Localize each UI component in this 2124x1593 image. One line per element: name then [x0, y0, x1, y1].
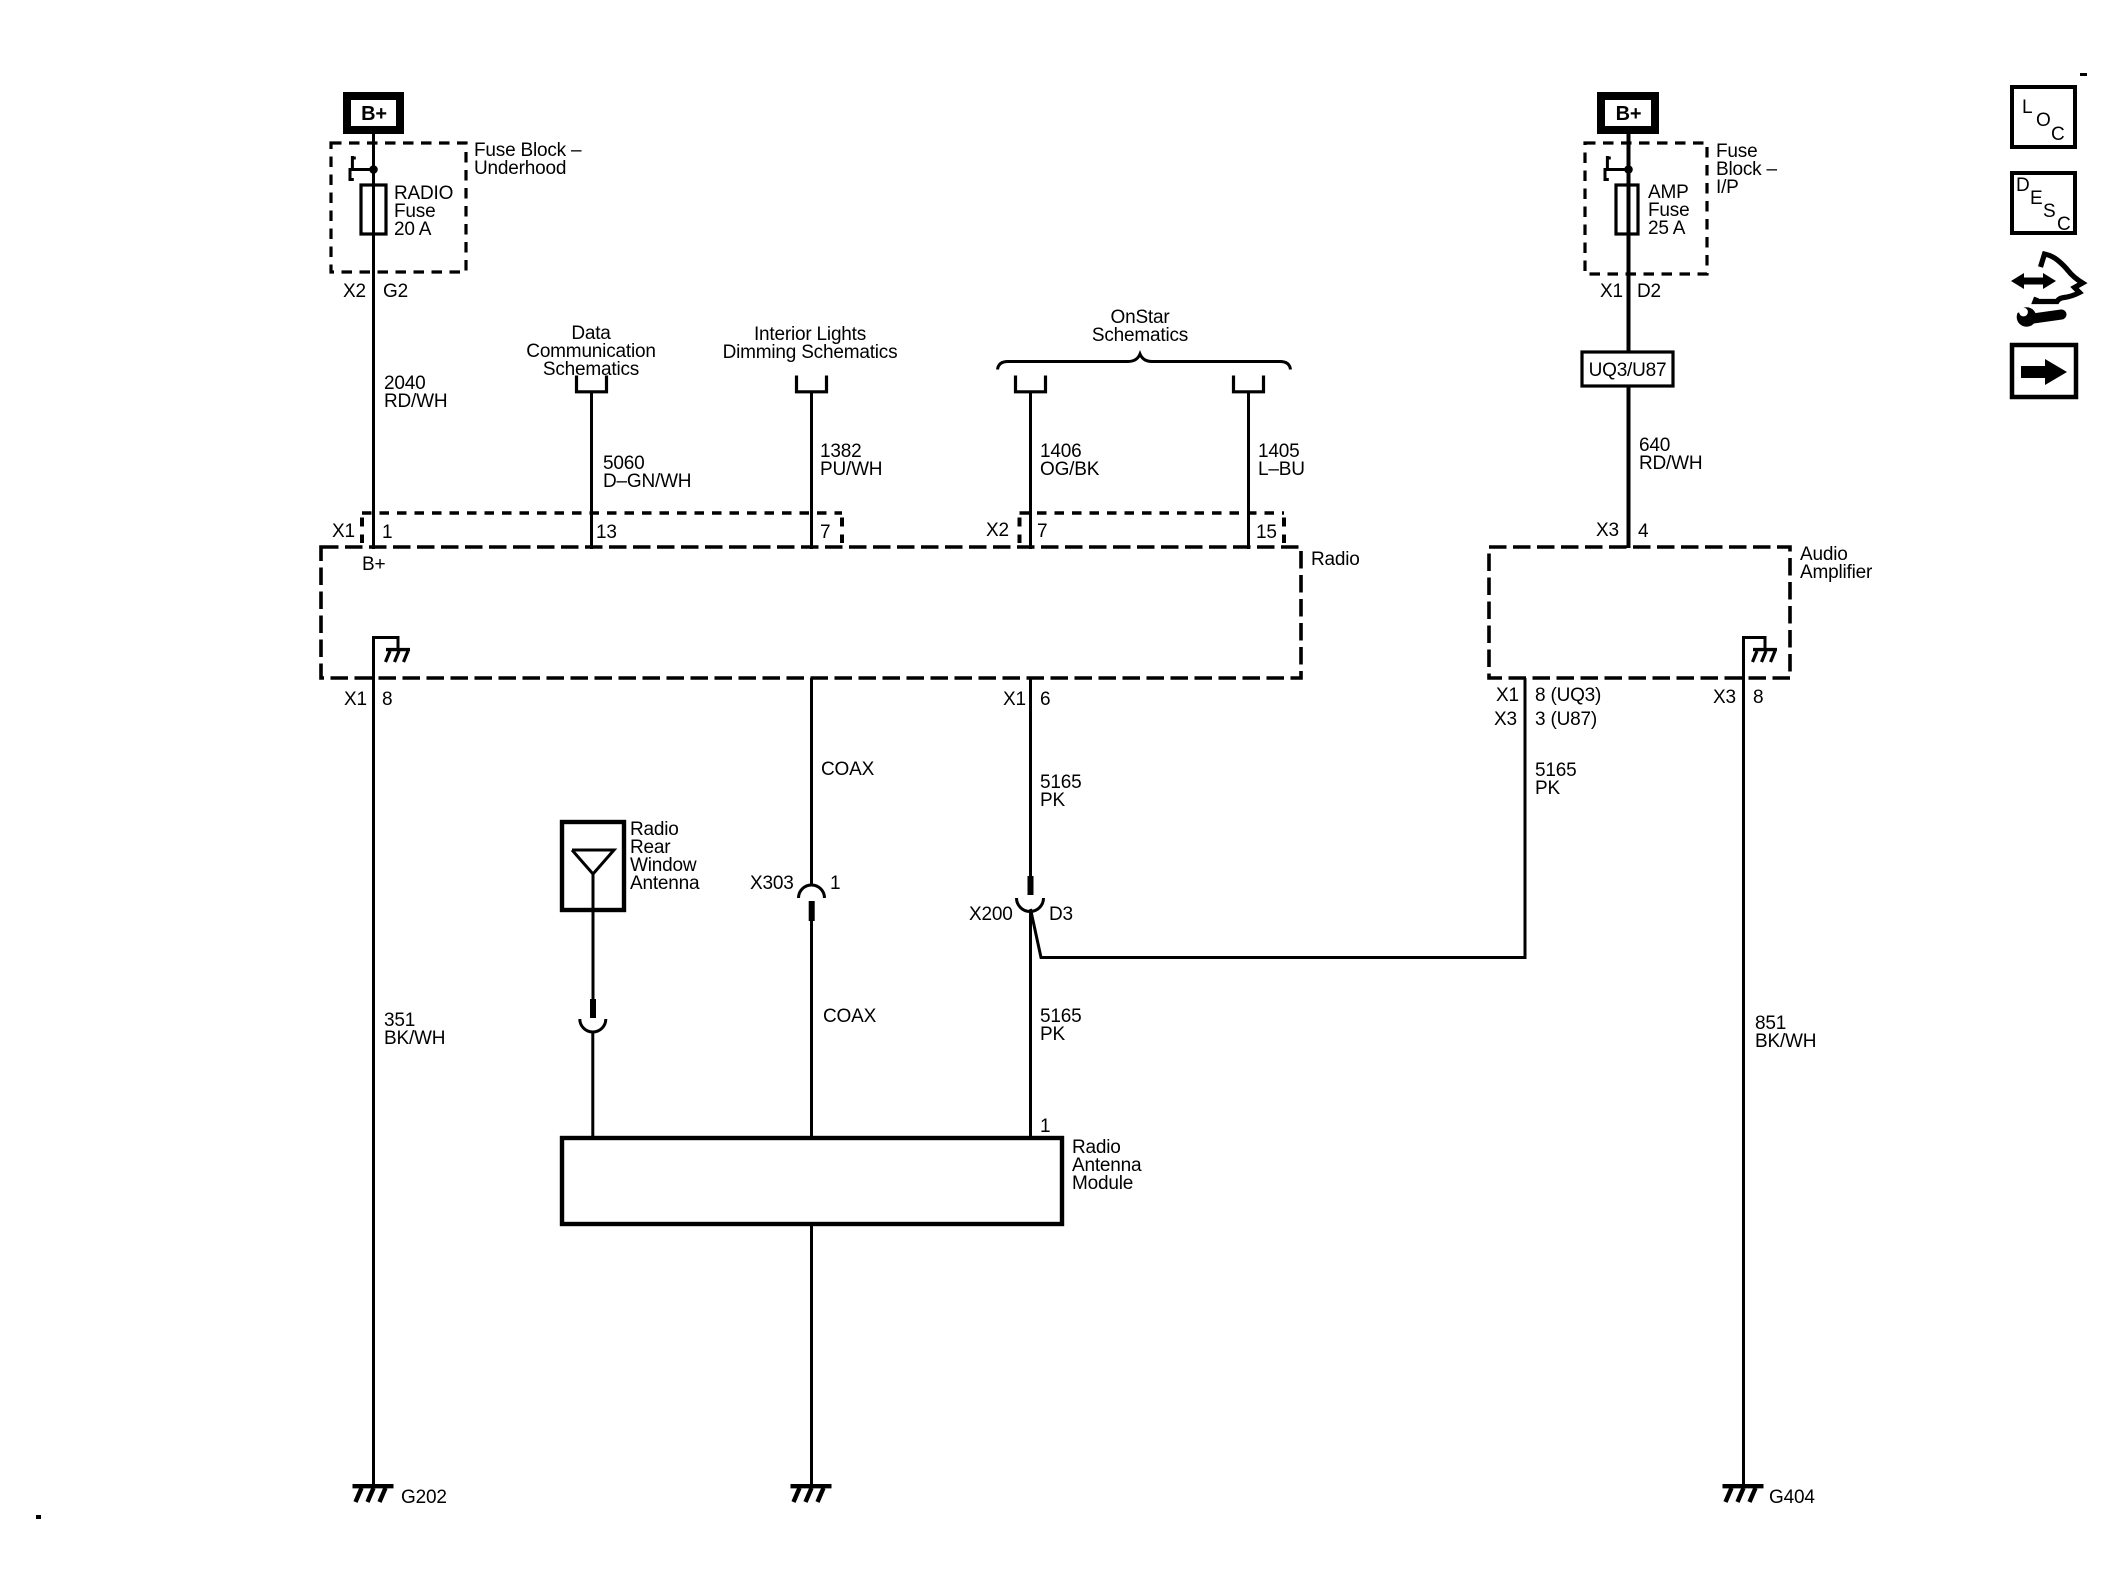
svg-text:7: 7	[1037, 521, 1047, 542]
pin labels X1 | 8 (radio bottom left)	[344, 689, 392, 710]
svg-text:8 (UQ3): 8 (UQ3)	[1535, 685, 1601, 706]
connector X303 1 (socket and pin)	[799, 885, 825, 921]
svg-text:15: 15	[1256, 522, 1277, 543]
svg-text:X2: X2	[343, 281, 366, 302]
pin labels X1 8 (UQ3) / X3 3 (U87)	[1494, 685, 1601, 730]
B+ power symbol (right, amp feed)	[1601, 96, 1655, 130]
radio internal chassis ground	[386, 650, 411, 662]
wire 351 BK/WH from radio X1-8 to G202	[372, 678, 375, 1484]
antenna symbol	[572, 850, 614, 999]
svg-text:L: L	[2022, 97, 2032, 118]
B+ power symbol (left, radio feed)	[347, 96, 400, 130]
antenna inline connector (pin and socket)	[580, 999, 606, 1032]
svg-text:X3: X3	[1494, 709, 1517, 730]
wire label 1406 OG/BK	[1040, 441, 1100, 480]
svg-text:RD/WH: RD/WH	[1639, 453, 1702, 474]
svg-text:25 A: 25 A	[1648, 218, 1686, 239]
stray mark top right	[2080, 73, 2087, 76]
svg-text:X1: X1	[1600, 281, 1623, 302]
wire below UQ3/U87 to amp pin X3-4	[1627, 386, 1631, 548]
svg-text:C: C	[2057, 214, 2071, 235]
svg-text:PU/WH: PU/WH	[820, 459, 882, 480]
svg-text:BK/WH: BK/WH	[1755, 1031, 1816, 1052]
svg-text:D–GN/WH: D–GN/WH	[603, 471, 691, 492]
wire 851 BK/WH from amp X3-8 to G404	[1742, 678, 1745, 1484]
svg-text:C: C	[2051, 124, 2065, 145]
label Fuse Block - I/P	[1716, 141, 1778, 198]
svg-text:X1: X1	[344, 689, 367, 710]
svg-text:1: 1	[830, 873, 840, 894]
svg-text:Module: Module	[1072, 1173, 1133, 1194]
wire label 1405 L-BU	[1258, 441, 1305, 480]
label Radio Rear Window Antenna	[630, 819, 700, 894]
COAX wire from radio to X303	[810, 678, 813, 886]
svg-text:X1: X1	[1003, 689, 1026, 710]
svg-text:BK/WH: BK/WH	[384, 1028, 445, 1049]
svg-text:X200: X200	[969, 904, 1013, 925]
svg-text:8: 8	[1753, 687, 1763, 708]
off-page connector (data communication)	[577, 376, 607, 392]
label Fuse Block - Underhood	[474, 140, 582, 179]
svg-text:X3: X3	[1596, 520, 1619, 541]
label Audio Amplifier	[1800, 544, 1873, 583]
off-page connector (OnStar 1406)	[1016, 376, 1046, 392]
svg-text:RD/WH: RD/WH	[384, 391, 447, 412]
pin labels radio top: X1 1 13 7 X2 7 15	[332, 520, 1277, 543]
svg-text:E: E	[2030, 188, 2042, 209]
wire label 640 RD/WH	[1639, 435, 1702, 474]
svg-text:PK: PK	[1040, 790, 1065, 811]
svg-text:COAX: COAX	[823, 1006, 877, 1027]
Audio Amplifier component dashed box	[1489, 547, 1790, 678]
junction dot at fuse feed	[369, 165, 378, 174]
wire label 351 BK/WH	[384, 1010, 445, 1049]
svg-text:D2: D2	[1637, 281, 1661, 302]
diagnostic icon: double arrow	[2011, 273, 2056, 289]
wire from module to center ground	[810, 1224, 813, 1484]
svg-text:G2: G2	[383, 281, 408, 302]
ground (module, unlabeled)	[791, 1486, 832, 1502]
svg-text:G404: G404	[1769, 1487, 1815, 1508]
svg-text:Schematics: Schematics	[1092, 325, 1188, 346]
svg-text:1: 1	[382, 522, 392, 543]
wire 1405 L-BU	[1247, 392, 1250, 549]
svg-text:20 A: 20 A	[394, 219, 432, 240]
COAX wire from X303 to module	[810, 921, 813, 1138]
pin labels X3 | 4 (amp top)	[1596, 520, 1649, 542]
svg-text:B+: B+	[362, 554, 385, 575]
fuse block underhood dashed box	[331, 143, 466, 272]
svg-text:3 (U87): 3 (U87)	[1535, 709, 1597, 730]
svg-text:COAX: COAX	[821, 759, 875, 780]
svg-text:UQ3/U87: UQ3/U87	[1589, 360, 1667, 381]
bus bar hook symbol (right fuse block)	[1604, 156, 1629, 180]
svg-text:4: 4	[1638, 521, 1649, 542]
pin labels X3 | 8 (amp bottom right)	[1713, 687, 1763, 708]
brace over OnStar wires	[998, 354, 1291, 370]
Radio Rear Window Antenna box	[562, 822, 624, 910]
wire label 5165 PK (lower)	[1040, 1006, 1081, 1045]
svg-text:X1: X1	[332, 521, 355, 542]
junction dot at amp fuse feed	[1624, 165, 1633, 174]
svg-text:D: D	[2016, 175, 2030, 196]
svg-text:13: 13	[596, 522, 617, 543]
svg-text:D3: D3	[1049, 904, 1073, 925]
labels X200 | D3	[969, 904, 1073, 925]
svg-text:X1: X1	[1496, 685, 1519, 706]
wire label 5165 PK (radio side)	[1040, 772, 1081, 811]
svg-text:7: 7	[820, 522, 830, 543]
wire label 851 BK/WH	[1755, 1013, 1816, 1052]
wire label 2040 RD/WH	[384, 373, 447, 412]
wire 1382 PU/WH	[810, 392, 813, 549]
svg-text:B+: B+	[361, 103, 387, 125]
svg-text:G202: G202	[401, 1487, 447, 1508]
svg-text:L–BU: L–BU	[1258, 459, 1305, 480]
svg-text:1: 1	[1040, 1116, 1050, 1137]
RPO option box UQ3/U87	[1582, 352, 1673, 386]
forward arrow legend box	[2012, 345, 2076, 397]
Radio component dashed box	[321, 547, 1301, 678]
fuse RADIO 20A	[361, 183, 453, 240]
radio internal ground wire	[374, 638, 399, 679]
wire 5165 PK from radio pin X1-6	[1029, 678, 1032, 876]
bus bar hook symbol (left fuse block)	[349, 156, 374, 180]
svg-text:Dimming Schematics: Dimming Schematics	[723, 342, 898, 363]
svg-text:Schematics: Schematics	[543, 359, 639, 380]
amp internal ground wire	[1744, 638, 1766, 679]
DESC legend box	[2012, 173, 2075, 235]
svg-text:PK: PK	[1040, 1024, 1065, 1045]
svg-text:Underhood: Underhood	[474, 158, 566, 179]
ground G202	[353, 1486, 447, 1508]
label Radio Antenna Module	[1072, 1137, 1142, 1194]
svg-text:6: 6	[1040, 689, 1050, 710]
svg-text:Amplifier: Amplifier	[1800, 562, 1873, 583]
Radio Antenna Module box	[562, 1138, 1062, 1224]
stray mark bottom left	[36, 1515, 41, 1519]
wire from B+ to Radio pin X1-1 (2040 RD/WH)	[372, 134, 375, 549]
radio connector X1 dotted row	[362, 513, 842, 543]
off-page connector (OnStar 1405)	[1234, 376, 1264, 392]
svg-text:X303: X303	[750, 873, 794, 894]
wire 5060 D-GN/WH	[590, 392, 593, 549]
LOC legend box	[2012, 87, 2075, 147]
svg-text:PK: PK	[1535, 778, 1560, 799]
svg-text:8: 8	[382, 689, 392, 710]
svg-text:Radio: Radio	[1311, 549, 1360, 570]
wire from B+ to UQ3/U87 (640 RD/WH)	[1627, 134, 1631, 352]
svg-text:X3: X3	[1713, 687, 1736, 708]
label Interior Lights Dimming Schematics	[723, 324, 898, 363]
amp internal chassis ground	[1753, 650, 1778, 662]
ground G404	[1723, 1486, 1816, 1508]
wire from antenna connector to module	[591, 1032, 594, 1138]
svg-text:O: O	[2036, 110, 2051, 131]
label Data Communication Schematics	[526, 323, 655, 380]
pin labels X1 | 6 (radio bottom)	[1003, 689, 1050, 710]
wire 5165 PK from amp to X200	[1031, 678, 1526, 958]
diagnostic icon: wrench	[2007, 299, 2062, 327]
connector X200 D3 (pin and socket)	[1017, 876, 1044, 912]
fuse AMP 25A	[1616, 182, 1689, 239]
svg-text:Antenna: Antenna	[630, 873, 700, 894]
svg-text:S: S	[2043, 201, 2055, 222]
diagnostic icon: freeform arrow outline	[2035, 254, 2083, 302]
connector labels X1 / D2	[1600, 281, 1661, 302]
fuse block I/P dashed box	[1585, 143, 1707, 274]
wire label 5165 PK (amp side)	[1535, 760, 1576, 799]
radio connector X2 dotted row	[1020, 513, 1285, 543]
svg-text:OG/BK: OG/BK	[1040, 459, 1100, 480]
svg-text:X2: X2	[986, 520, 1009, 541]
svg-text:B+: B+	[1616, 103, 1642, 125]
wire 5165 PK from X200 to module pin 1	[1029, 912, 1032, 1139]
wire label 5060 D-GN/WH	[603, 453, 691, 492]
svg-text:I/P: I/P	[1716, 177, 1739, 198]
labels X303 | 1	[750, 873, 840, 894]
label OnStar Schematics	[1092, 307, 1188, 346]
connector labels X2 / G2	[343, 281, 408, 302]
wire label 1382 PU/WH	[820, 441, 882, 480]
off-page connector (interior lights dimming)	[797, 376, 827, 392]
wire 1406 OG/BK	[1029, 392, 1032, 549]
